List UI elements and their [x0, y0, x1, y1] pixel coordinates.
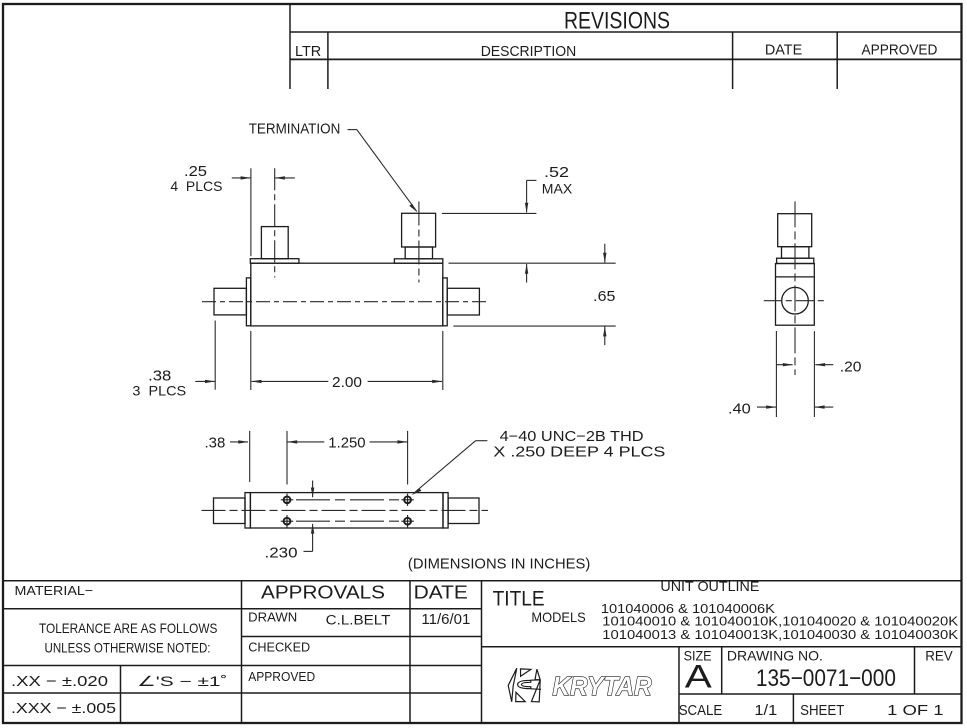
side vertical centerline — [794, 201, 796, 375]
front left connector — [214, 288, 246, 315]
side connector bore circle — [782, 287, 809, 314]
svg-text:.230: .230 — [265, 545, 298, 562]
dim .65 top arrow — [604, 244, 606, 263]
side left extension line — [775, 331, 777, 417]
svg-text:REV: REV — [925, 647, 953, 663]
svg-text:3 PLCS: 3 PLCS — [132, 383, 186, 399]
svg-text:DESCRIPTION: DESCRIPTION — [481, 43, 577, 60]
svg-text:CHECKED: CHECKED — [248, 640, 310, 655]
dim .40 right arrow — [815, 406, 833, 408]
front termination connector square — [402, 213, 436, 247]
side connector neck — [782, 247, 809, 259]
drawing-rev divider — [914, 647, 916, 694]
bottom main centerline — [202, 509, 489, 511]
svg-text:DATE: DATE — [414, 581, 468, 602]
front body left extension line — [250, 331, 252, 390]
svg-text:UNLESS OTHERWISE NOTED:: UNLESS OTHERWISE NOTED: — [45, 640, 211, 656]
side horizontal centerline — [764, 300, 827, 302]
termination leader — [348, 129, 357, 131]
svg-text:SHEET: SHEET — [800, 702, 844, 719]
front termination neck — [405, 247, 432, 259]
svg-text:X .250 DEEP 4 PLCS: X .250 DEEP 4 PLCS — [493, 445, 665, 461]
dim .38 bottom arrow — [230, 441, 248, 443]
svg-text:SCALE: SCALE — [679, 702, 723, 719]
screw hole bottom-left — [284, 518, 291, 525]
svg-text:APPROVALS: APPROVALS — [261, 581, 385, 602]
svg-text:DRAWN: DRAWN — [248, 610, 297, 625]
svg-text:APPROVED: APPROVED — [862, 42, 938, 59]
svg-text:UNIT OUTLINE: UNIT OUTLINE — [660, 579, 759, 594]
dim .20 right arrow — [815, 364, 833, 366]
bottom left connector — [214, 498, 246, 524]
approved row underline — [3, 692, 482, 694]
approvals left divider — [241, 581, 243, 723]
screw hole top-left — [284, 496, 291, 503]
svg-text:REVISIONS: REVISIONS — [564, 7, 670, 34]
body bottom extension line — [453, 325, 615, 327]
bottom body left extension line — [249, 431, 251, 482]
title block left divider — [481, 581, 483, 723]
front horizontal centerline — [202, 301, 489, 303]
svg-text:135−0071−000: 135−0071−000 — [756, 665, 896, 692]
side connector square — [778, 214, 812, 247]
dim 2.00 left arrow — [252, 380, 329, 382]
tolerance column divider — [120, 666, 122, 724]
svg-text:.20: .20 — [840, 358, 862, 375]
side body step line — [776, 276, 815, 278]
svg-text:4−40 UNC−2B THD: 4−40 UNC−2B THD — [500, 429, 644, 445]
dim .52 down arrow — [526, 180, 528, 212]
svg-text:.XX − ±.020: .XX − ±.020 — [11, 673, 108, 690]
svg-text:∠'S − ±1˚: ∠'S − ±1˚ — [137, 673, 228, 689]
dim .25 extension line — [250, 168, 252, 256]
bottom hole row line — [296, 520, 399, 522]
svg-text:.65: .65 — [593, 288, 615, 305]
krytar emblem — [508, 668, 541, 702]
drawn row underline — [242, 636, 482, 638]
left holes extension line — [286, 431, 288, 485]
size-drawing divider — [721, 647, 723, 694]
dim .38 extension line — [214, 321, 216, 390]
approvals-date divider — [409, 581, 411, 723]
front termination flange — [394, 259, 442, 263]
svg-text:MATERIAL−: MATERIAL− — [15, 583, 94, 598]
svg-text:TOLERANCE ARE AS FOLLOWS: TOLERANCE ARE AS FOLLOWS — [39, 620, 217, 636]
svg-text:MODELS: MODELS — [531, 609, 585, 625]
side right extension line — [813, 331, 815, 417]
revisions column header underline — [290, 58, 962, 60]
side connector flange — [777, 258, 814, 263]
svg-text:C.L.BELT: C.L.BELT — [326, 613, 391, 628]
revisions table left edge — [289, 5, 291, 89]
svg-text:2.00: 2.00 — [332, 374, 362, 391]
front body right extension line — [442, 331, 444, 390]
svg-text:A: A — [685, 659, 713, 695]
svg-text:.XXX − ±.005: .XXX − ±.005 — [11, 700, 116, 717]
front top-left connector flange — [250, 259, 299, 264]
revisions DESCRIPTION-DATE divider — [732, 32, 734, 89]
top hole row line — [296, 499, 399, 501]
scale-sheet divider — [792, 694, 794, 723]
svg-text:1 OF 1: 1 OF 1 — [887, 702, 943, 719]
title block top line — [3, 580, 962, 582]
dim .38 arrow — [195, 380, 214, 382]
svg-text:LTR: LTR — [295, 43, 321, 60]
dim .230 elbow — [304, 550, 313, 552]
svg-text:TERMINATION: TERMINATION — [249, 122, 341, 138]
thread leader line — [414, 441, 476, 493]
revisions LTR divider — [327, 32, 329, 89]
dim .52 leader elbow — [527, 179, 537, 181]
svg-text:(DIMENSIONS IN INCHES): (DIMENSIONS IN INCHES) — [408, 556, 590, 573]
bottom body — [250, 493, 443, 528]
title-models underline — [482, 646, 962, 648]
svg-text:101040013 & 101040013K,1010400: 101040013 & 101040013K,101040030 & 10104… — [602, 627, 958, 642]
right holes extension line — [407, 431, 409, 485]
revisions header underline — [290, 31, 962, 33]
svg-text:TITLE: TITLE — [493, 588, 545, 611]
body top extension line — [449, 262, 616, 264]
svg-text:.52: .52 — [544, 164, 569, 181]
screw hole bottom-right — [404, 518, 411, 525]
screw hole top-right — [404, 496, 411, 503]
svg-text:KRYTAR: KRYTAR — [553, 671, 652, 701]
dim 1.250 left arrow — [287, 441, 324, 443]
dim .230 top arrow — [312, 481, 314, 498]
front termination centerline — [418, 202, 420, 283]
svg-text:11/6/01: 11/6/01 — [421, 612, 470, 628]
svg-text:APPROVED: APPROVED — [248, 669, 315, 684]
front top-left connector centerline — [274, 168, 276, 277]
termination top extension line — [442, 212, 537, 214]
svg-text:1.250: 1.250 — [328, 435, 365, 452]
dim .25 left arrow — [232, 177, 251, 179]
front body — [251, 263, 443, 326]
front left step — [246, 278, 250, 326]
bottom right step — [443, 493, 448, 528]
bottom left step — [245, 493, 250, 528]
svg-text:DRAWING NO.: DRAWING NO. — [727, 647, 823, 663]
scale row top line — [679, 693, 962, 695]
svg-text:.40: .40 — [728, 401, 751, 418]
svg-text:.38: .38 — [205, 435, 226, 452]
dim .20 left arrow — [776, 364, 792, 366]
tolerance area underline — [3, 665, 482, 667]
svg-text:4 PLCS: 4 PLCS — [170, 178, 222, 194]
front right step — [443, 278, 447, 326]
front top-left connector square — [261, 227, 288, 259]
svg-text:DATE: DATE — [765, 42, 802, 59]
revisions DATE-APPROVED divider — [836, 32, 838, 89]
dim .40 left arrow — [757, 406, 776, 408]
svg-text:MAX: MAX — [542, 180, 573, 196]
logo-size divider — [678, 647, 680, 723]
dim .25 right arrow — [275, 177, 295, 179]
side body — [776, 264, 815, 326]
dim .65 bottom arrow — [604, 327, 606, 346]
dim 1.250 right arrow — [370, 441, 408, 443]
dim .52 lower arrow — [526, 264, 528, 283]
svg-text:1/1: 1/1 — [754, 702, 777, 719]
bottom right connector — [448, 498, 479, 524]
material row underline — [3, 608, 482, 610]
front right connector — [447, 288, 479, 315]
dim .230 bottom arrow — [312, 524, 314, 552]
dim 2.00 right arrow — [368, 380, 443, 382]
krytar logotype — [553, 671, 652, 701]
